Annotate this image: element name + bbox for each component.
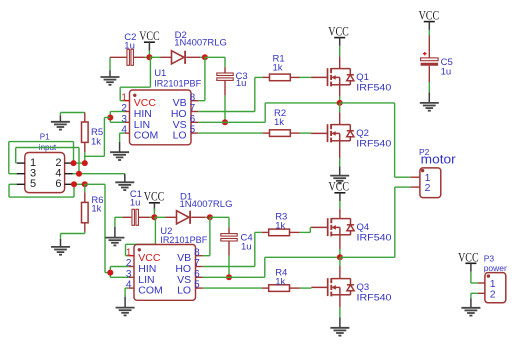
U2 pin name VCC [138, 252, 161, 264]
connector P3 power box [484, 254, 507, 303]
svg-text:3: 3 [126, 269, 132, 280]
node P1 row3 left [71, 181, 77, 187]
IC U1 IR2101PBF gate driver box [130, 68, 202, 145]
U2 pin name HIN [138, 263, 156, 275]
wire P1 under loop (pin5 to row3) [9, 184, 74, 197]
U2 pin 5 stub [196, 287, 203, 289]
U2 pin name VB [177, 252, 191, 264]
U1 pin 4 number [121, 125, 127, 136]
transistor Q3 IRF540 [311, 278, 391, 304]
U1 pin name VCC [134, 97, 157, 109]
ground (P3) [461, 308, 480, 316]
node VCC1 junction [146, 54, 152, 60]
wire node down to Q2 drain [339, 103, 341, 125]
ground (C2 left) [101, 57, 120, 85]
svg-text:P3: P3 [484, 254, 495, 264]
P3 pin 2 stub [478, 292, 485, 294]
wire U2 LO to R4 [203, 287, 262, 289]
node U1 input junction [107, 115, 113, 121]
U2 pin 3 stub [129, 276, 134, 278]
wire P1 outer loop (pin3 to row1) [9, 142, 74, 174]
svg-text:IR2101PBF: IR2101PBF [154, 78, 201, 89]
U2 pin name LO [177, 285, 191, 297]
wire C2 left [110, 56, 127, 58]
node C4/VS2 junction [226, 274, 232, 280]
power flag VCC (P3) [458, 250, 479, 283]
capacitor C3 [217, 71, 248, 89]
ground (R5 top) [51, 113, 85, 130]
svg-text:COM: COM [138, 285, 163, 297]
svg-text:4: 4 [121, 125, 127, 136]
U2 pin 3 number [126, 269, 132, 280]
svg-text:1k: 1k [274, 117, 284, 128]
node P1 row1 left [71, 160, 77, 166]
wire output2 to P2 pin2 [340, 187, 410, 257]
ground (R6) [51, 239, 70, 255]
node VCC2 junction [151, 214, 157, 220]
P1 pin 5 number [30, 178, 36, 190]
wire U2 VS to output [203, 257, 340, 277]
resistor R6 1k [82, 184, 104, 232]
svg-text:Q2: Q2 [356, 128, 369, 139]
U1 pin name VB [173, 97, 187, 109]
svg-text:1u: 1u [441, 67, 452, 78]
wire P3 pin2 to ground [471, 293, 478, 307]
svg-text:1k: 1k [273, 62, 283, 73]
svg-text:1N4007RLG: 1N4007RLG [180, 199, 233, 210]
ground (U2 COM) [116, 308, 135, 316]
U2 pin 8 stub [196, 255, 203, 257]
svg-text:IR2101PBF: IR2101PBF [160, 235, 207, 246]
wire U2 HO to R3 [203, 232, 262, 266]
wire node to C4 top [210, 217, 229, 233]
wire VCC node to D2 anode [149, 56, 171, 58]
U1 pin 5 stub [191, 132, 198, 134]
P2 pin 2 number [425, 182, 431, 194]
P3 pin 2 number [490, 289, 496, 301]
node P1 row3 right (R6) [82, 181, 88, 187]
U1 pin 6 stub [191, 121, 198, 123]
U2 pin 2 stub [129, 266, 134, 268]
svg-text:1k: 1k [91, 204, 101, 215]
connector P2 motor box [419, 147, 456, 198]
svg-text:IRF540: IRF540 [357, 233, 392, 244]
U1 pin 7 number [190, 103, 196, 114]
U2 pin 6 stub [196, 276, 203, 278]
P2 pin 1 number [425, 172, 431, 184]
svg-text:VCC: VCC [139, 29, 160, 43]
svg-text:5: 5 [194, 280, 200, 291]
capacitor C1 [122, 189, 142, 225]
svg-text:VCC: VCC [458, 250, 479, 264]
ground (U1 COM) [110, 142, 129, 160]
transistor Q4 IRF540 [311, 209, 391, 244]
svg-text:1u: 1u [124, 41, 135, 52]
svg-text:1u: 1u [236, 78, 247, 89]
U1 pin name LIN [134, 119, 150, 131]
svg-text:1k: 1k [91, 136, 101, 147]
U2 pin 8 number [194, 247, 200, 258]
wire output1 to P2 pin1 [340, 103, 411, 177]
U1 pin 1 stub [125, 100, 130, 102]
node P1 row1 right (R5) [82, 160, 88, 166]
U1 pin 8 number [190, 92, 196, 103]
node half-bridge 2 output [337, 254, 343, 260]
svg-text:2: 2 [126, 258, 132, 269]
resistor R1 1k [263, 53, 300, 80]
IC U2 IR2101PBF gate driver box [134, 226, 207, 300]
resistor R5 1k [82, 113, 104, 153]
U1 pin 5 number [190, 125, 196, 136]
U2 pin 2 number [126, 258, 132, 269]
wire C3 bottom to VS [224, 80, 226, 122]
U1 pin 4 stub [125, 132, 130, 134]
svg-text:IRF540: IRF540 [356, 139, 391, 150]
wire VCC2 to U2 pin1 [126, 217, 156, 255]
svg-text:1u: 1u [130, 198, 141, 209]
svg-text:2: 2 [490, 289, 496, 301]
wire C5 to ground [428, 66, 430, 103]
power flag VCC (top bridge) [328, 25, 349, 57]
svg-text:LO: LO [177, 285, 191, 297]
node P1 row2 [76, 171, 82, 177]
capacitor C5 polarized [421, 36, 453, 78]
svg-text:6: 6 [55, 178, 61, 190]
P3 pin 1 stub [478, 282, 485, 284]
P2 pin 2 stub [410, 186, 420, 188]
P1 pin 1 stub [17, 162, 25, 164]
U2 pin 6 number [194, 269, 200, 280]
U2 pin name HO [175, 263, 191, 275]
U2 pin 4 stub [129, 287, 134, 289]
U1 pin name HO [171, 108, 187, 120]
svg-text:IRF540: IRF540 [356, 83, 391, 94]
power flag VCC (U1 boot) [139, 29, 160, 57]
U1 pin name COM [134, 130, 159, 142]
diode D1 1N4007RLG [177, 192, 233, 224]
U1 pin name VS [173, 119, 187, 131]
svg-text:4: 4 [126, 280, 132, 291]
diode D2 1N4007RLG [172, 30, 227, 64]
wire VB2 riser [203, 217, 210, 255]
U1 pin 3 stub [125, 121, 130, 123]
wire C1 to VCC2 node [138, 216, 154, 218]
wire U2 HIN/LIN tie [110, 267, 128, 278]
P1 pin 2 stub [65, 162, 73, 164]
resistor R2 1k [263, 108, 300, 137]
wire node down to Q3 drain [339, 257, 341, 278]
wire net B to U2 [85, 184, 111, 272]
node U2 input junction [107, 270, 113, 276]
svg-text:motor: motor [421, 152, 457, 167]
wire R6 to ground [61, 232, 85, 239]
svg-text:2: 2 [121, 103, 127, 114]
node C3/VS junction [222, 119, 228, 125]
power flag VCC (U2 boot) [144, 190, 165, 218]
wire U1 VS to output [198, 103, 339, 122]
U2 pin name COM [138, 285, 163, 297]
ground (Q2 source) [330, 176, 349, 184]
U1 pin 2 number [121, 103, 127, 114]
P1 pin 3 stub [17, 173, 25, 175]
U1 pin 2 stub [125, 111, 130, 113]
svg-text:6: 6 [190, 114, 196, 125]
transistor Q2 IRF540 [311, 124, 391, 150]
U1 pin name HIN [134, 108, 152, 120]
svg-text:8: 8 [190, 92, 196, 103]
svg-text:Q1: Q1 [356, 72, 369, 83]
power flag VCC (C5) [419, 9, 440, 36]
resistor R4 1k [262, 267, 300, 291]
U2 pin 4 number [126, 280, 132, 291]
svg-text:7: 7 [194, 258, 200, 269]
U1 pin 7 stub [191, 111, 198, 113]
P1 pin 6 stub [65, 183, 73, 185]
svg-text:VCC: VCC [329, 179, 350, 193]
connector P1 box [25, 133, 65, 193]
P1 pin 5 stub [17, 183, 25, 185]
ground (C5) [420, 103, 439, 111]
wire R1 to Q1 gate [300, 76, 312, 78]
svg-text:2: 2 [425, 182, 431, 194]
wire U1 HO to R1 [198, 77, 262, 111]
P1 pin 4 stub [65, 173, 73, 175]
svg-text:VCC: VCC [144, 190, 165, 204]
wire U1 LO to R2 [198, 132, 262, 134]
svg-text:1: 1 [126, 247, 132, 258]
U2 pin name VS [177, 274, 191, 286]
ground (P1 row2) [115, 174, 134, 190]
svg-text:Q3: Q3 [357, 282, 370, 293]
svg-text:IRF540: IRF540 [357, 293, 392, 304]
wire node to C3 top [205, 57, 225, 73]
wire VB riser [198, 57, 205, 100]
svg-text:U1: U1 [154, 68, 166, 79]
P1 pin 6 number [55, 178, 61, 190]
wire C4 bottom to VS2 [228, 241, 230, 277]
U1 pin 8 stub [191, 100, 198, 102]
wire P1 row2 to ground [73, 173, 125, 175]
wire R2 to Q2 gate [300, 132, 312, 134]
wire Q2 source to ground [339, 141, 341, 176]
svg-text:VCC: VCC [328, 25, 349, 39]
svg-text:power: power [484, 263, 507, 273]
wire U2 COM to ground [125, 288, 129, 307]
svg-text:Q4: Q4 [357, 222, 370, 233]
wire P1 row3 [73, 183, 85, 185]
svg-text:1k: 1k [275, 276, 285, 287]
svg-text:5: 5 [190, 125, 196, 136]
svg-text:8: 8 [194, 247, 200, 258]
svg-text:COM: COM [134, 130, 159, 142]
U1 pin 6 number [190, 114, 196, 125]
svg-text:VCC: VCC [419, 9, 440, 23]
P1 pin 1 number [30, 157, 36, 169]
svg-text:1: 1 [121, 92, 127, 103]
svg-text:1N4007RLG: 1N4007RLG [174, 38, 227, 49]
P1 pin 2 number [55, 157, 61, 169]
wire VCC to P3 pin1 [471, 282, 478, 284]
wire D1 cathode to node [191, 216, 210, 218]
U1 pin 3 number [121, 114, 127, 125]
wire P1 row1 [73, 162, 85, 164]
svg-text:1u: 1u [241, 241, 252, 252]
wire Q4 source to node [339, 235, 341, 257]
P3 pin 1 number [490, 278, 496, 290]
wire D2 cathode to node [186, 56, 205, 58]
wire C2 to VCC node [133, 56, 149, 58]
U2 pin 1 stub [129, 255, 134, 257]
svg-text:3: 3 [121, 114, 127, 125]
capacitor C4 [221, 233, 253, 253]
U1 pin name LO [173, 130, 187, 142]
ground (Q3 source) [330, 328, 349, 336]
wire input A to U1 [85, 118, 111, 164]
P1 pin 4 number [55, 168, 61, 180]
svg-text:1k: 1k [275, 221, 285, 232]
P2 pin 1 stub [410, 176, 420, 178]
svg-text:5: 5 [30, 178, 36, 190]
node D2/VB junction [202, 54, 208, 60]
capacitor C2 [124, 32, 136, 66]
U2 pin 1 number [126, 247, 132, 258]
wire VCC node to U1 pin1 [120, 57, 150, 100]
wire U1 HIN/LIN tie [110, 112, 124, 123]
wire Q1 source to node [339, 85, 341, 103]
wire R3 to Q4 gate (jog) [300, 227, 312, 232]
svg-text:7: 7 [190, 103, 196, 114]
node half-bridge 1 output [337, 100, 343, 106]
resistor R3 1k [262, 211, 300, 235]
U2 pin 7 number [194, 258, 200, 269]
svg-text:P1: P1 [40, 133, 50, 142]
U2 pin 5 number [194, 280, 200, 291]
P1 pin 3 number [30, 168, 36, 180]
svg-text:6: 6 [194, 269, 200, 280]
wire VCC2 to D1 anode [154, 216, 176, 218]
U2 pin 7 stub [196, 266, 203, 268]
power flag VCC (bottom bridge) [329, 179, 350, 209]
wire U1 COM to ground [120, 133, 125, 142]
wire P1 inner loop (pin1 to row2) [16, 148, 79, 174]
node D1/VB2 junction [207, 214, 213, 220]
svg-text:LO: LO [173, 130, 187, 142]
U2 pin name LIN [138, 274, 154, 286]
U1 pin 1 number [121, 92, 127, 103]
wire R4 to Q3 gate [300, 287, 312, 289]
ground (C1 left) [105, 217, 124, 245]
wire Q3 source to ground [339, 295, 341, 328]
transistor Q1 IRF540 [311, 57, 391, 94]
